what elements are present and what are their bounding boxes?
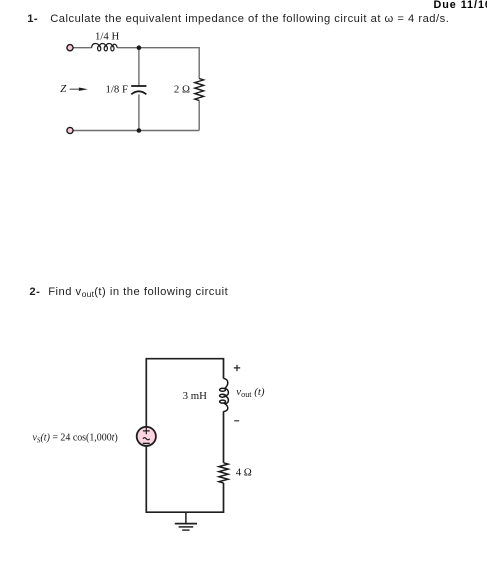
inductor L1 1/4 H: [92, 44, 118, 51]
svg-text:1/4 H: 1/4 H: [95, 30, 119, 42]
svg-text:Z: Z: [60, 83, 67, 95]
wire bottom: [73, 130, 199, 132]
resistor R2 4 ohm: [219, 463, 228, 483]
wire right branch top lead: [198, 47, 200, 79]
svg-text:2 Ω: 2 Ω: [174, 84, 190, 96]
capacitor C1 curved bottom plate: [131, 91, 146, 94]
wire middle branch top: [138, 48, 140, 86]
inductor L2 3 mH: [220, 378, 229, 411]
source plus sign: [143, 428, 150, 435]
wire right branch bottom lead: [198, 101, 200, 131]
svg-text:vS(t) = 24 cos(1,000t): vS(t) = 24 cos(1,000t): [33, 432, 118, 444]
problem 1 number: [27, 13, 38, 25]
terminal bottom-left: [67, 127, 73, 133]
svg-text:1/8 F: 1/8 F: [106, 84, 129, 96]
wire c2 inductor to resistor: [223, 411, 225, 463]
capacitor C1 top plate: [131, 85, 146, 87]
terminal top-left: [67, 45, 73, 51]
arrow: [70, 88, 80, 90]
problem 2 number: [29, 286, 40, 298]
problem 2 text: [48, 286, 228, 299]
label minus: [234, 420, 239, 422]
source tilde: [143, 438, 150, 440]
svg-text:vout (t): vout (t): [236, 386, 265, 399]
wire middle branch bottom: [138, 94, 140, 130]
header due date: [434, 0, 487, 11]
wire c2 resistor to bottom and back to source: [146, 446, 223, 512]
resistor R1 2 ohm: [195, 79, 204, 101]
wire inductor to top-right corner: [117, 47, 199, 49]
source Vs circle: [137, 427, 156, 446]
wire top-left terminal to inductor: [73, 47, 91, 49]
label plus: [234, 365, 240, 371]
wire c2 left+top: [146, 359, 223, 427]
svg-text:3 mH: 3 mH: [183, 390, 207, 402]
node junction bottom: [137, 128, 142, 133]
source minus sign: [143, 442, 150, 444]
svg-text:4 Ω: 4 Ω: [236, 467, 252, 479]
ground symbol: [175, 512, 197, 530]
problem 1 text: [50, 13, 449, 25]
node junction top: [137, 45, 142, 50]
